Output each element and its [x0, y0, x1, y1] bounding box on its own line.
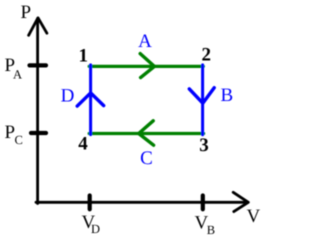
svg-text:D: D — [91, 222, 100, 236]
V axis — [36, 201, 248, 204]
tick VB — [201, 196, 205, 210]
svg-text:B: B — [207, 223, 215, 237]
arrow D up — [77, 93, 104, 106]
P axis arrowhead — [29, 18, 47, 36]
svg-text:1: 1 — [79, 46, 89, 67]
wire process C bottom edge — [89, 132, 203, 135]
wire process A top edge — [89, 65, 203, 68]
svg-text:P: P — [21, 2, 32, 23]
svg-text:A: A — [138, 31, 152, 52]
tick PA — [30, 63, 47, 67]
tick PC — [31, 131, 46, 135]
svg-text:V: V — [247, 206, 261, 227]
svg-text:4: 4 — [78, 134, 88, 155]
arrow B down — [189, 88, 214, 104]
wire process B right edge — [201, 65, 204, 135]
V axis arrowhead — [233, 192, 248, 211]
tick VD — [88, 196, 92, 210]
svg-text:C: C — [15, 133, 23, 147]
arrow A right — [140, 54, 154, 78]
svg-text:D: D — [61, 86, 75, 107]
svg-text:B: B — [220, 85, 233, 106]
svg-text:P: P — [5, 122, 16, 143]
wire process D left edge — [89, 65, 92, 135]
arrow C left — [139, 121, 154, 145]
svg-text:A: A — [13, 67, 22, 81]
svg-text:2: 2 — [201, 45, 211, 66]
P axis — [36, 19, 39, 204]
svg-text:C: C — [140, 148, 153, 169]
svg-text:3: 3 — [199, 135, 209, 156]
